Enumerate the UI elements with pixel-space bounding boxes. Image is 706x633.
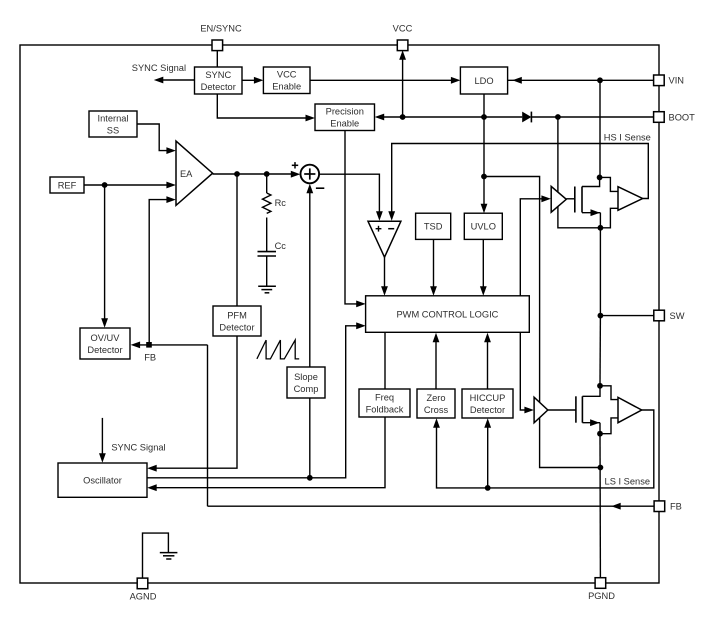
svg-text:Enable: Enable [272, 82, 301, 92]
svg-text:Precision: Precision [326, 107, 364, 117]
label SYNC Signal (top) [132, 63, 186, 73]
diode bootstrap diode [522, 112, 531, 123]
svg-text:SYNC: SYNC [205, 70, 231, 80]
label LS I Sense [605, 477, 650, 487]
pin EN/SYNC [200, 24, 242, 51]
buffer LS gate driver [534, 397, 548, 423]
svg-text:HS I Sense: HS I Sense [604, 132, 651, 142]
svg-text:Freq: Freq [375, 392, 394, 402]
svg-text:VIN: VIN [669, 76, 685, 86]
wire HICCUP Detector to PWM logic [484, 333, 491, 389]
svg-text:Oscillator: Oscillator [83, 476, 122, 486]
block Slope Comp [287, 367, 325, 398]
ground below Cc [258, 286, 276, 293]
pin PGND [588, 578, 615, 601]
wire TSD to PWM logic [430, 239, 437, 295]
wire LS sense amp bottom input [600, 418, 618, 434]
wire LS gate [548, 409, 576, 411]
svg-text:AGND: AGND [130, 592, 157, 602]
block Internal SS [89, 111, 137, 137]
node FB junction [146, 342, 152, 348]
svg-text:Foldback: Foldback [366, 404, 404, 414]
node LDO-UVLO junction [481, 174, 487, 180]
svg-text:PGND: PGND [588, 591, 615, 601]
wire PWM comparator to PWM logic [381, 257, 388, 296]
wire compensation branch [266, 174, 268, 193]
wire PWM logic to HS driver [520, 195, 551, 295]
wire Precision Enable to PWM logic [345, 131, 366, 308]
svg-text:FB: FB [670, 502, 682, 512]
node LS I Sense HICCUP junction [485, 485, 491, 491]
svg-text:Detector: Detector [87, 345, 122, 355]
capacitor Cc [258, 241, 287, 286]
wire SYNC Detector to Precision Enable [217, 94, 315, 121]
op-amp HS current sense amplifier [618, 187, 643, 211]
wire SYNC Detector to VCC Enable [242, 77, 263, 84]
wire Slope Comp to Oscillator line [309, 398, 311, 478]
svg-text:LS I Sense: LS I Sense [605, 477, 650, 487]
wire HS gate [566, 198, 575, 200]
svg-text:LDO: LDO [474, 76, 493, 86]
wire SYNC Signal into Oscillator [99, 418, 106, 463]
wire SW node down [599, 228, 601, 316]
node LS drain junction [597, 383, 603, 389]
wire PWM logic to Freq Foldback [384, 333, 386, 390]
wire VCC pin feed [399, 50, 406, 117]
node VIN junction [597, 77, 603, 83]
wire EN/SYNC pin to SYNC Detector [216, 51, 218, 68]
svg-text:TSD: TSD [424, 222, 443, 232]
wire LS I Sense to Zero Cross [433, 410, 654, 488]
block PWM CONTROL LOGIC [366, 296, 530, 333]
svg-text:Detector: Detector [219, 322, 254, 332]
wire FB pin into chip [208, 503, 654, 510]
wire LS drain to SW node [582, 386, 600, 397]
wire REF node down to OV/UV Detector [101, 185, 108, 328]
svg-text:FB: FB [144, 353, 156, 363]
svg-text:Detector: Detector [201, 82, 236, 92]
wire EA node down to PFM Detector [236, 174, 238, 306]
svg-text:BOOT: BOOT [669, 112, 696, 122]
svg-text:Rc: Rc [275, 198, 287, 208]
svg-text:Zero: Zero [426, 393, 445, 403]
wire Internal SS to EA [137, 124, 176, 154]
pin SW [654, 310, 685, 321]
svg-text:Enable: Enable [330, 119, 359, 129]
block PFM Detector [213, 306, 261, 336]
wire FB to EA input [149, 196, 176, 345]
pin FB [654, 501, 682, 512]
svg-text:Internal: Internal [97, 113, 128, 123]
sawtooth ramp waveform [257, 340, 299, 359]
pin AGND [130, 578, 157, 602]
op-amp LS current sense amplifier [618, 397, 642, 422]
node LS source junction [597, 431, 603, 437]
svg-text:Cross: Cross [424, 405, 449, 415]
wire UVLO to PWM logic [480, 239, 487, 295]
wire FB riser [207, 345, 209, 506]
block VCC Enable [263, 67, 310, 94]
wire AGND to analog ground symbol [143, 533, 169, 578]
wire PWM logic to LS driver [520, 333, 534, 414]
transistor HS MOSFET [575, 187, 582, 213]
svg-text:UVLO: UVLO [471, 222, 496, 232]
svg-text:PFM: PFM [227, 310, 247, 320]
block Precision Enable [315, 104, 375, 131]
wire FB to OV/UV Detector [131, 342, 208, 349]
wire BOOT to HS driver supply [558, 117, 618, 228]
wire summing node to PWM comparator [319, 174, 382, 221]
wire Zero Cross to PWM logic [433, 333, 440, 389]
label HS I Sense [604, 132, 651, 142]
chip boundary [20, 45, 659, 583]
wire EA output to summing node [213, 171, 301, 178]
pin VCC [393, 24, 413, 51]
pin BOOT [654, 112, 696, 123]
wire Freq Foldback to Oscillator [147, 416, 385, 491]
wire VCC rail to diode [403, 116, 523, 118]
block SYNC Detector [195, 67, 243, 94]
block HICCUP Detector [462, 389, 513, 418]
block REF [50, 177, 84, 193]
svg-text:PWM CONTROL LOGIC: PWM CONTROL LOGIC [396, 309, 498, 319]
wire HS I Sense to PWM comparator [388, 144, 648, 221]
pin VIN [654, 75, 684, 86]
svg-text:SW: SW [670, 311, 685, 321]
svg-text:SS: SS [107, 125, 119, 135]
label FB node [144, 353, 156, 363]
wire REF to EA [84, 182, 176, 189]
block TSD [416, 213, 451, 239]
wire VCC to LS driver supply [484, 177, 600, 468]
label SYNC Signal (oscillator) [111, 442, 165, 452]
wire LS I Sense branch to HICCUP [484, 418, 491, 488]
wire Oscillator to PWM logic [147, 322, 366, 477]
node SW junction [598, 313, 604, 319]
svg-text:OV/UV: OV/UV [91, 333, 121, 343]
wire VIN to LDO [508, 77, 654, 84]
svg-text:REF: REF [58, 180, 77, 190]
wire LDO output down to UVLO [481, 94, 488, 213]
node EA output junction [234, 171, 270, 177]
svg-text:EN/SYNC: EN/SYNC [200, 24, 242, 34]
wire HS source [582, 209, 600, 228]
svg-text:Cc: Cc [275, 241, 287, 251]
wire LS source to PGND [599, 434, 601, 578]
block LDO U-LDO [460, 67, 507, 94]
node slope comp oscillator junction [307, 475, 313, 481]
block Freq Foldback [359, 389, 410, 417]
svg-text:SYNC Signal: SYNC Signal [111, 442, 165, 452]
wire VCC rail to Precision Enable [375, 114, 403, 121]
svg-text:VCC: VCC [393, 24, 413, 34]
wire SW node to pin [600, 315, 653, 317]
wire VCC Enable to LDO [310, 77, 460, 84]
transistor LS MOSFET [576, 396, 583, 422]
svg-text:Slope: Slope [294, 372, 318, 382]
ground analog ground symbol [160, 553, 178, 559]
wire Slope Comp to summing node [306, 184, 313, 367]
wire HS drain to VIN node [582, 177, 600, 186]
node HS drain junction [597, 175, 603, 181]
wire SYNC Signal output (to left) [154, 77, 195, 84]
wire LS source [582, 419, 600, 433]
wire LS sense amp top input [600, 386, 618, 400]
wire PFM Detector to Oscillator [147, 336, 237, 472]
block UVLO [464, 213, 502, 239]
svg-text:Comp: Comp [294, 384, 319, 394]
wire SW to LS drain [599, 316, 601, 386]
wire HS sense amp top input [600, 177, 618, 191]
op-amp EA error amplifier [176, 141, 213, 205]
svg-text:EA: EA [180, 169, 193, 179]
svg-text:VCC: VCC [277, 70, 297, 80]
buffer HS gate driver [551, 186, 566, 212]
block Oscillator [58, 463, 147, 497]
node VCC rail junctions [400, 114, 561, 120]
node REF junction [102, 182, 108, 188]
summing junction [292, 162, 325, 188]
wire VIN down to HS drain [599, 80, 601, 177]
block Zero Cross [417, 389, 455, 418]
svg-text:HICCUP: HICCUP [470, 393, 506, 403]
svg-text:Detector: Detector [470, 405, 505, 415]
wire diode to BOOT pin [532, 116, 654, 118]
comparator PWM comparator [368, 221, 401, 257]
node LS driver return junction [598, 465, 604, 471]
resistor Rc [263, 193, 287, 251]
block OV/UV Detector [80, 328, 130, 359]
node HS source junction [598, 225, 604, 231]
svg-text:SYNC Signal: SYNC Signal [132, 63, 186, 73]
